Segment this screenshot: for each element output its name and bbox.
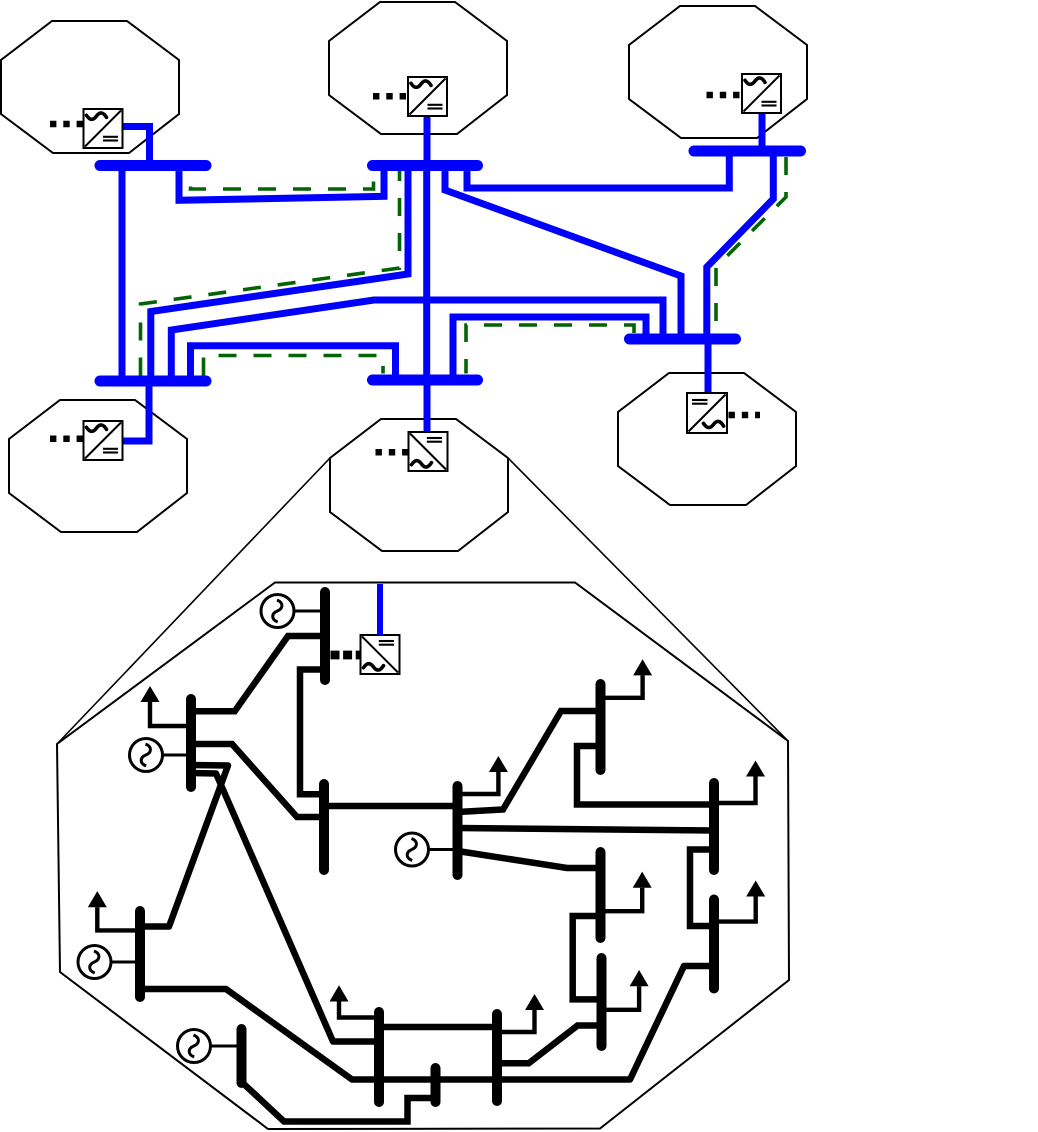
line bus2-bus4: [191, 744, 325, 817]
green dashed path BL-BM: [204, 356, 384, 376]
load arrow bus8: [605, 872, 652, 912]
big zoomed octagon: [57, 583, 789, 1130]
bus 9 bar: [597, 958, 607, 1046]
bus 2 bar: [186, 699, 196, 787]
DC link TL bus to TM bus: [179, 166, 384, 200]
dots BR: [729, 412, 761, 419]
bus 7 bar: [596, 684, 606, 770]
line bus1-bus4: [300, 670, 325, 795]
line bus8-bus9: [573, 916, 602, 999]
converter U4 (bottom-left area): [84, 421, 123, 460]
converter U5 (bottom-middle area, mirrored): [409, 432, 448, 471]
line bus11-bus13-bus9: [379, 1024, 497, 1031]
bus 1 bar: [320, 592, 330, 680]
bus 6b bar: [709, 900, 719, 989]
line bus5-bus8: [458, 851, 601, 868]
DC link TR bus to RM bus: [707, 151, 774, 339]
load arrow bus7: [604, 659, 652, 698]
AC area octagon bottom-left: [9, 400, 187, 532]
converter U1 (top-left area): [84, 109, 123, 148]
line bus12-bus13b: [242, 1082, 437, 1122]
DC link BL bus to RM bus: [171, 300, 663, 381]
dashed link bus1 to converter U7: [331, 651, 362, 660]
load arrow bus6: [717, 761, 765, 804]
DC bus bar top-middle: [373, 160, 478, 171]
converter U3 (top-right area): [742, 74, 781, 113]
converter U2 (top-middle area): [408, 77, 447, 116]
DC link TM bus to RM bus: [445, 166, 681, 339]
green dashed path TR-RM: [716, 157, 786, 333]
line bus13-bus9: [501, 1026, 602, 1064]
generator G3 at bus5: [396, 833, 455, 866]
line bus1-bus2: [191, 636, 326, 711]
converter U6 (bottom-right area, mirrored): [687, 393, 727, 433]
DC bus bar top-right: [694, 146, 801, 157]
AC area octagon top-left: [1, 21, 179, 153]
DC wire converter BR to bus: [705, 342, 712, 394]
DC bus bar bottom-middle: [373, 375, 478, 386]
bus 13b bar: [431, 1068, 441, 1102]
green dashed path BL-TM: [141, 171, 400, 376]
bus 11 bar: [374, 1012, 384, 1102]
generator G5 at bus12: [178, 1030, 239, 1063]
bus 8 bar: [596, 852, 606, 938]
line bus2-bus11: [191, 773, 380, 1042]
load arrow bus2: [141, 686, 187, 726]
dots BL: [50, 436, 83, 443]
bus 6 bar: [709, 783, 719, 870]
load arrow bus11: [330, 985, 376, 1017]
DC wire converter BL to bus: [122, 378, 149, 441]
dots (rest of AC grid) TL: [50, 121, 83, 128]
line bus6-bus6b: [690, 850, 714, 927]
DC wire converter TR to bus: [759, 112, 766, 149]
green dashed path TL-TM: [191, 171, 374, 189]
DC link TL bus to BL bus: [119, 166, 126, 381]
DC wire converter BM to bus: [424, 382, 431, 433]
load arrow bus9: [605, 970, 649, 1010]
magnifier line left: [57, 458, 330, 744]
bus 5 bar: [453, 786, 463, 875]
DC wire stub from converter U7 up through octagon edge: [377, 584, 383, 635]
bus 13 bar: [492, 1014, 502, 1101]
DC wire converter TL to bus 1: [122, 127, 150, 164]
dots TR: [707, 92, 740, 99]
load arrow bus5: [461, 756, 508, 794]
AC area octagon top-middle: [329, 2, 507, 134]
bus 12 bar: [237, 1029, 247, 1083]
DC bus bar bottom-left: [100, 376, 206, 387]
bus 4 bar: [319, 784, 329, 870]
generator G1 at bus1: [261, 595, 322, 628]
dots TM: [373, 93, 406, 100]
AC area octagon bottom-right: [618, 373, 796, 505]
load arrow bus10: [88, 891, 136, 930]
AC area octagon top-right: [629, 6, 807, 138]
AC area octagon bottom-middle (zoomed area): [330, 419, 508, 551]
green dashed path BM-RM: [466, 325, 634, 374]
magnifier line right: [508, 458, 788, 741]
line bus5-bus6: [458, 828, 715, 831]
DC bus bar right-middle: [630, 334, 736, 345]
DC bus bar top-left: [100, 160, 206, 171]
dots BM: [376, 449, 409, 456]
converter U7 inside zoomed area: [361, 635, 400, 674]
bus 10 bar: [135, 911, 145, 997]
generator G4 at bus10: [78, 946, 136, 979]
line bus5-bus7: [458, 711, 601, 812]
generator G2 at bus2: [130, 739, 188, 772]
line bus10-bus14-bus6b: [140, 966, 714, 1080]
line bus2-bus10: [140, 765, 228, 927]
load arrow bus6b: [717, 881, 765, 922]
DC link TM bus to BL bus: [151, 166, 408, 381]
line bus7-bus6: [577, 746, 714, 805]
DC link BL bus to BM bus: [191, 346, 396, 381]
DC link BM bus to RM bus: [453, 317, 646, 380]
load arrow bus13: [501, 994, 544, 1032]
DC wire converter TM to bus: [424, 114, 431, 163]
DC link TM bus to TR bus: [467, 151, 729, 188]
line bus4-bus5: [324, 803, 458, 810]
DC link TM bus to BM bus: [423, 166, 430, 379]
